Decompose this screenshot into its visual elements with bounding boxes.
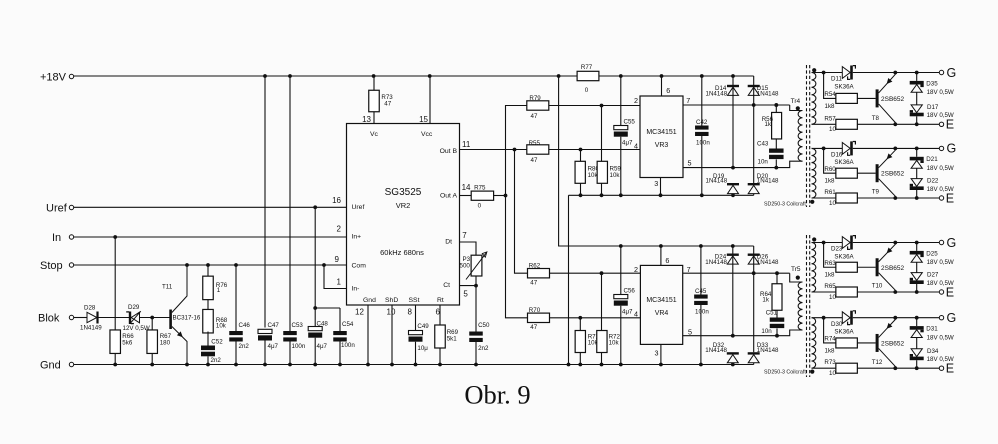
- svg-text:2: 2: [634, 265, 638, 274]
- svg-text:Uref: Uref: [46, 203, 68, 215]
- pin 4 VR3: [634, 141, 638, 150]
- svg-text:18V 0,5W: 18V 0,5W: [927, 259, 954, 266]
- pin 15 Vcc: [419, 76, 430, 124]
- op-amp U-SG3525 VR2 box: [347, 124, 460, 306]
- svg-text:D23: D23: [831, 246, 843, 253]
- pin 6 VR3: [662, 76, 671, 96]
- svg-text:SK36A: SK36A: [834, 83, 854, 90]
- resistor R56: [762, 103, 782, 139]
- svg-text:5: 5: [463, 289, 468, 298]
- pin 8 SSt: [408, 305, 416, 331]
- svg-text:8: 8: [408, 308, 413, 317]
- svg-text:1N4148: 1N4148: [757, 91, 779, 98]
- wire +18V branch to VR4 rail: [559, 76, 754, 248]
- svg-text:C49: C49: [417, 323, 429, 330]
- diode D16 SK36A: [831, 141, 855, 166]
- svg-text:D27: D27: [927, 272, 939, 279]
- resistor R61: [824, 189, 857, 207]
- svg-text:7: 7: [687, 265, 691, 274]
- diode D24: [705, 246, 739, 336]
- svg-text:1N4148: 1N4148: [705, 347, 727, 354]
- svg-text:D17: D17: [927, 104, 939, 111]
- wire Stop-Com line: [74, 263, 347, 267]
- pin 3 VR4: [655, 344, 661, 364]
- pin 7 Dt: [462, 231, 467, 240]
- svg-text:15: 15: [419, 115, 428, 124]
- wire T9 emitter line: [812, 196, 940, 200]
- wire In- stub: [324, 265, 347, 289]
- svg-text:1N4148: 1N4148: [706, 178, 728, 185]
- svg-text:10: 10: [829, 126, 836, 133]
- transformer Tr4 secondary 2: [810, 148, 816, 204]
- pin 7 VR3: [686, 96, 690, 105]
- svg-text:4: 4: [634, 141, 638, 150]
- svg-text:D28: D28: [84, 305, 96, 312]
- svg-text:Vc: Vc: [370, 131, 379, 138]
- svg-text:D31: D31: [926, 326, 938, 333]
- diode D11 SK36A: [831, 66, 855, 91]
- svg-text:2: 2: [337, 225, 342, 234]
- svg-text:In+: In+: [352, 233, 362, 240]
- svg-text:12V 0,5W: 12V 0,5W: [123, 325, 150, 332]
- svg-text:C55: C55: [624, 119, 636, 126]
- svg-text:In-: In-: [352, 286, 360, 293]
- node G terminal T12: [939, 311, 956, 325]
- svg-text:D16: D16: [831, 152, 843, 159]
- resistor R66: [110, 330, 134, 365]
- capacitor C55: [614, 76, 636, 195]
- resistor R73: [369, 76, 394, 112]
- svg-text:E: E: [946, 191, 954, 205]
- diode D22 zener: [910, 178, 954, 193]
- svg-text:T9: T9: [872, 189, 880, 196]
- svg-text:47: 47: [530, 280, 537, 287]
- svg-text:100n: 100n: [696, 140, 710, 147]
- svg-text:10n: 10n: [758, 159, 769, 166]
- pin 11 Out B: [462, 140, 471, 149]
- svg-text:C53: C53: [292, 322, 304, 329]
- node Gnd terminal: [40, 360, 74, 372]
- svg-text:C42: C42: [696, 119, 708, 126]
- diode D17 zener: [910, 104, 954, 119]
- svg-text:Stop: Stop: [40, 260, 63, 272]
- svg-text:R77: R77: [581, 64, 593, 71]
- svg-text:D34: D34: [927, 348, 939, 355]
- pin 6 Rt: [436, 305, 441, 325]
- resistor R64: [760, 271, 782, 310]
- capacitor C50: [469, 286, 490, 365]
- svg-text:500: 500: [460, 263, 471, 270]
- svg-text:BC317-16: BC317-16: [173, 314, 201, 321]
- svg-text:In: In: [52, 232, 61, 244]
- wire VR3 local gnd: [569, 193, 754, 364]
- svg-text:9: 9: [335, 255, 340, 264]
- svg-text:1N4148: 1N4148: [757, 178, 779, 185]
- svg-text:D29: D29: [128, 304, 140, 311]
- diode D34 zener: [910, 348, 954, 363]
- svg-text:2SB652: 2SB652: [881, 265, 905, 272]
- svg-text:14: 14: [462, 183, 471, 192]
- svg-text:SK36A: SK36A: [834, 253, 854, 260]
- wire Blok line: [74, 316, 170, 320]
- node Uref terminal: [46, 203, 74, 215]
- pin 1 In-: [337, 278, 342, 287]
- svg-text:C46: C46: [239, 322, 251, 329]
- pin 2 VR3: [634, 96, 638, 105]
- wire zener chain D35-D17: [916, 73, 918, 125]
- pin 3 VR3: [654, 178, 660, 196]
- pin 12 Gnd: [355, 305, 368, 365]
- capacitor C53: [283, 76, 306, 365]
- svg-text:5k6: 5k6: [122, 339, 133, 346]
- resistor R62: [528, 263, 550, 287]
- svg-text:D30: D30: [831, 321, 843, 328]
- svg-text:SD250-3 Coilcraft: SD250-3 Coilcraft: [764, 202, 806, 208]
- resistor R67: [147, 318, 172, 365]
- pin 2 VR4: [634, 265, 638, 274]
- svg-text:R65: R65: [824, 283, 836, 290]
- resistor R79: [527, 95, 549, 120]
- resistor R55: [527, 140, 549, 164]
- resistor R75: [460, 185, 494, 210]
- wire Dt stub: [460, 242, 477, 255]
- svg-text:SK36A: SK36A: [834, 159, 854, 166]
- resistor R70: [528, 307, 550, 331]
- wire T10 base lead: [857, 266, 875, 268]
- svg-text:100n: 100n: [695, 309, 709, 316]
- node Blok terminal: [38, 313, 74, 325]
- svg-text:Tr4: Tr4: [791, 98, 801, 105]
- svg-text:4: 4: [634, 309, 638, 318]
- wire zener chain D21-D22: [916, 148, 918, 198]
- svg-text:C50: C50: [478, 322, 490, 329]
- svg-text:VR3: VR3: [655, 142, 669, 149]
- wire T8 base branch: [824, 73, 836, 99]
- capacitor C43: [757, 139, 784, 170]
- wire Tr4 primary top lead: [754, 103, 803, 110]
- wire T10 emitter line: [812, 290, 940, 294]
- resistor R54: [824, 91, 857, 110]
- wire VR3 pin5 line: [683, 166, 776, 170]
- node E terminal T12: [939, 362, 954, 376]
- svg-text:4μ7: 4μ7: [622, 309, 633, 316]
- wire zener chain D31-D34: [916, 318, 918, 369]
- svg-text:G: G: [947, 236, 957, 250]
- svg-text:10: 10: [387, 308, 396, 317]
- svg-text:0: 0: [478, 203, 482, 210]
- svg-text:MC34151: MC34151: [646, 129, 676, 136]
- svg-text:2: 2: [634, 96, 638, 105]
- op-amp U-MC34151 VR3 box: [640, 96, 683, 178]
- svg-text:G: G: [947, 311, 957, 325]
- svg-text:Gnd: Gnd: [363, 297, 376, 304]
- svg-text:1N4148: 1N4148: [705, 259, 727, 266]
- svg-text:18V 0,5W: 18V 0,5W: [927, 334, 954, 341]
- diode D21 zener: [910, 156, 954, 172]
- wire Ct line: [460, 276, 478, 288]
- svg-text:Blok: Blok: [38, 313, 60, 325]
- svg-text:ShD: ShD: [385, 297, 398, 304]
- svg-text:R63: R63: [824, 260, 836, 267]
- transformer Tr5 label: [764, 370, 806, 376]
- diode D27 zener: [910, 272, 954, 287]
- diode D25 zener: [910, 250, 954, 266]
- svg-text:1N4148: 1N4148: [706, 91, 728, 98]
- svg-text:D21: D21: [926, 156, 938, 163]
- svg-text:R73: R73: [824, 359, 836, 366]
- resistor R71: [575, 318, 599, 365]
- svg-text:T11: T11: [162, 284, 173, 291]
- svg-text:2n2: 2n2: [239, 343, 250, 350]
- svg-text:C56: C56: [624, 288, 636, 295]
- svg-text:7: 7: [462, 231, 467, 240]
- wire Out B net: [460, 148, 528, 274]
- op-amp U-MC34151 VR4 box: [640, 265, 682, 344]
- wire T12 base lead: [857, 342, 875, 344]
- wire T9 base branch: [824, 148, 836, 173]
- svg-text:100n: 100n: [292, 343, 306, 350]
- resistor R59: [597, 106, 621, 196]
- svg-text:2SB652: 2SB652: [881, 96, 905, 103]
- resistor R57: [824, 115, 857, 133]
- svg-text:10: 10: [829, 200, 836, 207]
- svg-text:SG3525: SG3525: [385, 187, 422, 198]
- node Stop terminal: [40, 260, 74, 272]
- pin 13 Vc: [362, 112, 374, 124]
- wire T8 gate line: [812, 71, 940, 75]
- diode D31 zener: [910, 326, 954, 342]
- svg-text:R57: R57: [824, 115, 836, 122]
- potentiometer P3: [460, 252, 487, 280]
- wire T12 emitter line: [812, 366, 940, 370]
- capacitor C42: [695, 76, 710, 195]
- wire +18V rail: [74, 74, 754, 78]
- resistor R77: [577, 64, 599, 94]
- pin 16 Uref: [332, 196, 341, 205]
- wire T10 base branch: [824, 243, 836, 268]
- transformer Tr5 primary: [796, 276, 803, 331]
- svg-text:R74: R74: [824, 336, 836, 343]
- transistor T8 2SB652: [872, 73, 905, 125]
- svg-text:1k8: 1k8: [825, 347, 836, 354]
- transistor T10 2SB652: [872, 243, 905, 293]
- pin 14 Out A: [462, 183, 471, 192]
- transformer Tr5 core: [791, 235, 810, 377]
- svg-text:10k: 10k: [216, 323, 227, 330]
- svg-text:2n2: 2n2: [211, 357, 222, 364]
- resistor R74: [824, 336, 857, 355]
- svg-text:180: 180: [160, 339, 171, 346]
- svg-text:Rt: Rt: [437, 297, 444, 304]
- svg-text:E: E: [946, 285, 954, 299]
- resistor R63: [824, 260, 857, 279]
- svg-text:SD250-3 Coilcraft: SD250-3 Coilcraft: [764, 370, 806, 376]
- diode D23 SK36A: [831, 236, 855, 261]
- svg-text:Uref: Uref: [352, 204, 365, 211]
- wire R62 to VR4 pin2: [549, 271, 640, 275]
- diode D28: [80, 305, 102, 332]
- svg-text:1k8: 1k8: [825, 103, 836, 110]
- svg-text:2SB652: 2SB652: [881, 171, 905, 178]
- svg-text:C48: C48: [317, 321, 329, 328]
- svg-text:1k8: 1k8: [825, 178, 836, 185]
- diode D15: [748, 76, 779, 183]
- svg-text:Ct: Ct: [443, 282, 450, 289]
- node E terminal T8: [939, 118, 954, 132]
- svg-text:C52: C52: [211, 339, 223, 346]
- wire T10 gate line: [812, 241, 940, 245]
- svg-text:100n: 100n: [341, 342, 355, 349]
- diode D33: [748, 342, 779, 365]
- svg-text:10: 10: [829, 370, 836, 377]
- diode D14: [706, 76, 740, 168]
- svg-text:R62: R62: [529, 263, 541, 270]
- transformer Tr4 primary: [796, 106, 803, 161]
- wire T12 base branch: [824, 318, 836, 343]
- node +18V terminal: [40, 72, 74, 84]
- svg-text:R54: R54: [824, 91, 836, 98]
- pin 5 Ct: [463, 289, 468, 298]
- svg-text:47: 47: [531, 113, 538, 120]
- capacitor C49: [409, 323, 430, 365]
- pin 4 VR4: [634, 309, 638, 318]
- node In terminal: [52, 232, 74, 244]
- svg-text:47: 47: [530, 324, 537, 331]
- svg-text:R60: R60: [824, 166, 836, 173]
- transistor T11: [162, 265, 201, 365]
- resistor R73: [824, 359, 857, 377]
- capacitor C51: [761, 309, 784, 337]
- svg-text:VR4: VR4: [655, 310, 669, 317]
- wire VR4 pin7 line: [683, 271, 756, 275]
- svg-text:1: 1: [337, 278, 342, 287]
- svg-text:T10: T10: [872, 283, 883, 290]
- svg-text:1k8: 1k8: [825, 272, 836, 279]
- wire R55 to pin4: [549, 148, 640, 152]
- diode D29 zener 12V: [123, 304, 150, 332]
- svg-text:R79: R79: [529, 95, 541, 102]
- svg-text:10n: 10n: [761, 328, 772, 335]
- svg-text:4μ7: 4μ7: [268, 343, 279, 350]
- svg-text:4μ7: 4μ7: [317, 343, 328, 350]
- svg-text:2n2: 2n2: [478, 345, 489, 352]
- node E terminal T10: [939, 285, 954, 299]
- node G terminal T9: [939, 142, 956, 156]
- capacitor C47: [258, 76, 279, 365]
- diode D20: [748, 173, 779, 196]
- svg-text:1k: 1k: [765, 121, 772, 128]
- pin 5 VR3: [688, 159, 692, 168]
- wire Gnd rail: [74, 363, 754, 367]
- pin 6 VR4: [661, 246, 670, 265]
- resistor R80: [575, 150, 599, 196]
- svg-text:10k: 10k: [609, 340, 620, 347]
- svg-text:C43: C43: [757, 140, 769, 147]
- svg-text:10μ: 10μ: [417, 345, 428, 352]
- svg-text:11: 11: [462, 140, 471, 149]
- diode D26: [748, 246, 779, 352]
- node G terminal T8: [939, 66, 956, 80]
- svg-text:1N4148: 1N4148: [757, 347, 779, 354]
- svg-text:C47: C47: [268, 322, 280, 329]
- pin 5 VR4: [688, 328, 692, 337]
- svg-text:G: G: [947, 142, 957, 156]
- svg-text:6: 6: [665, 256, 669, 265]
- node G terminal T10: [939, 236, 956, 250]
- svg-text:D11: D11: [831, 76, 842, 83]
- resistor R68: [203, 300, 228, 346]
- wire T9 gate line: [812, 147, 940, 151]
- svg-text:R61: R61: [824, 189, 836, 196]
- wire Uref line: [74, 205, 347, 209]
- svg-text:16: 16: [332, 196, 341, 205]
- transformer Tr4 core: [791, 65, 810, 207]
- svg-text:3: 3: [655, 348, 659, 357]
- svg-text:1N4149: 1N4149: [80, 324, 102, 331]
- resistor R65: [824, 283, 857, 301]
- wire Tr4 primary bottom lead: [776, 161, 802, 167]
- diode D32: [705, 342, 739, 365]
- wire T8 emitter line: [812, 122, 940, 126]
- svg-text:C45: C45: [695, 288, 707, 295]
- diode D19: [706, 173, 740, 196]
- svg-text:MC34151: MC34151: [646, 297, 676, 304]
- svg-text:18V 0,5W: 18V 0,5W: [927, 165, 954, 172]
- pin 7 VR4: [687, 265, 691, 274]
- pin 10 ShD: [387, 305, 396, 365]
- wire In to R66: [114, 237, 116, 330]
- svg-text:T8: T8: [872, 115, 880, 122]
- wire T12 gate line: [812, 316, 940, 320]
- transformer Tr5 secondary 2: [810, 318, 816, 374]
- wire VR3 pin7 line: [683, 103, 756, 107]
- capacitor C46: [229, 265, 250, 365]
- svg-text:47: 47: [384, 100, 391, 107]
- wire Tr5 primary bottom lead: [777, 330, 803, 336]
- svg-text:Obr. 9: Obr. 9: [464, 380, 530, 410]
- svg-text:Gnd: Gnd: [40, 360, 61, 372]
- svg-text:10: 10: [829, 294, 836, 301]
- svg-text:1: 1: [217, 287, 221, 294]
- transformer Tr4 label: [764, 202, 806, 208]
- caption Obr. 9: [464, 380, 530, 410]
- node E terminal T9: [939, 191, 954, 205]
- capacitor C56: [614, 246, 636, 365]
- wire Out A net: [494, 106, 528, 318]
- svg-text:R75: R75: [474, 185, 486, 192]
- svg-text:D25: D25: [926, 250, 938, 257]
- svg-text:4μ7: 4μ7: [622, 140, 633, 147]
- wire In line: [74, 235, 347, 239]
- svg-text:10k: 10k: [610, 172, 621, 179]
- svg-text:R55: R55: [529, 140, 541, 147]
- svg-text:60kHz 680ns: 60kHz 680ns: [380, 248, 424, 257]
- wire T8 base lead: [857, 97, 875, 99]
- capacitor C45: [694, 246, 709, 365]
- resistor R72: [597, 273, 621, 364]
- svg-text:VR2: VR2: [396, 201, 411, 210]
- transistor T12 2SB652: [872, 318, 905, 369]
- svg-text:Out A: Out A: [440, 193, 457, 200]
- svg-text:D35: D35: [926, 80, 938, 87]
- resistor R76: [203, 265, 228, 300]
- wire zener chain D25-D27: [916, 243, 918, 293]
- resistor R69: [435, 325, 459, 365]
- svg-text:D22: D22: [927, 178, 939, 185]
- svg-text:5: 5: [688, 159, 692, 168]
- svg-text:C54: C54: [342, 321, 354, 328]
- transformer Tr4 secondary 1: [812, 68, 817, 124]
